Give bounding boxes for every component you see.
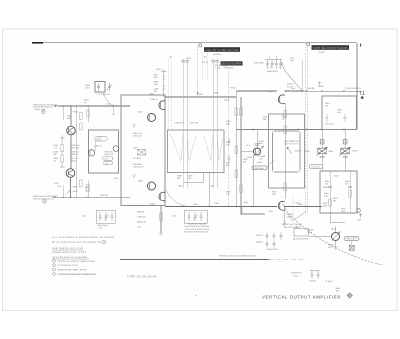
capacitor C513 [255, 144, 259, 145]
svg-text:CAPACITANCE VALUES ARE: CAPACITANCE VALUES ARE [184, 225, 210, 228]
svg-text:REFERENCE DIAGRAMS:: REFERENCE DIAGRAMS: [52, 256, 88, 259]
resistor R492 [160, 213, 163, 221]
svg-text:L1141: L1141 [186, 57, 191, 60]
resistor R456 [87, 181, 89, 198]
wire vert drop [208, 173, 210, 207]
resistor R490 [137, 221, 147, 224]
potentiometer R493 [138, 150, 146, 156]
relay box K522 [293, 226, 309, 241]
note text under network [184, 225, 210, 234]
svg-text:R536: R536 [323, 186, 328, 189]
wire curved from C401 to input line [103, 93, 113, 106]
svg-text:DISTRIBUTED: DISTRIBUTED [285, 140, 301, 143]
potentiometer R516 arrow [287, 147, 292, 154]
svg-text:C495 4.5-25: C495 4.5-25 [133, 165, 143, 168]
top rule dark segment [32, 42, 43, 44]
resistor R512 [282, 115, 287, 120]
wire diagonal pair [282, 203, 306, 221]
svg-text:L401: L401 [106, 103, 110, 106]
resistor R504 [235, 108, 238, 116]
svg-text:DELAY LINE DL401: DELAY LINE DL401 [206, 48, 239, 52]
resistor R515 [284, 126, 287, 134]
wire below box [330, 213, 345, 223]
svg-text:VERT SIG TO CRT PLATES: VERT SIG TO CRT PLATES [313, 46, 348, 50]
svg-text:C500: C500 [214, 202, 219, 205]
resistor R510 [240, 108, 243, 116]
svg-text:VERTICAL OUTPUT AMPLIFIER: VERTICAL OUTPUT AMPLIFIER [262, 295, 341, 300]
resistor R510 label [263, 116, 268, 121]
resistor R543 [345, 180, 350, 185]
note item 3 [53, 268, 87, 271]
capacitor C488 [154, 88, 159, 93]
capacitor network C441 (lower left termination) [96, 210, 115, 223]
potentiometer R483 [62, 186, 64, 198]
capacitor network C445 (lower mid termination) [184, 210, 207, 223]
output network box upper [322, 96, 357, 130]
node upper input [33, 103, 58, 113]
svg-text:SEE CAL PROC: SEE CAL PROC [284, 226, 299, 229]
svg-text:C445: C445 [172, 215, 177, 218]
svg-text:ATTENUATORS: ATTENUATORS [58, 264, 79, 267]
capacitor C541 [328, 187, 332, 188]
resistor R547 [341, 208, 346, 213]
label L1141 [186, 57, 191, 60]
node tick [169, 56, 172, 59]
svg-text:+12V: +12V [114, 177, 119, 180]
label box CURR BAL [252, 160, 275, 170]
svg-text:R497 330: R497 330 [190, 122, 198, 125]
svg-text:HF PEAK: HF PEAK [133, 157, 142, 160]
inductor L494 v-winding [171, 134, 197, 161]
wire R524 bottom [344, 130, 346, 172]
svg-text:C467 .001: C467 .001 [71, 146, 80, 149]
ground [132, 125, 136, 128]
wire lower output cont [285, 205, 322, 207]
label box GAIN [103, 157, 114, 161]
svg-text:C SELECTED: C SELECTED [266, 248, 279, 251]
note item 2 [53, 264, 78, 267]
bias network box [269, 114, 305, 188]
capacitor C507 [228, 138, 231, 146]
svg-text:+225V: +225V [71, 160, 77, 163]
svg-text:Q514: Q514 [269, 210, 274, 213]
capacitor C1133 [349, 245, 354, 250]
note voltages [52, 236, 114, 244]
svg-text:R484 2.7K: R484 2.7K [105, 153, 115, 156]
svg-text:-150V: -150V [243, 201, 249, 204]
resistor R489 [137, 216, 146, 219]
svg-text:L498: L498 [193, 203, 197, 206]
resistor R463 [54, 151, 59, 156]
svg-text:R491 1.5K: R491 1.5K [133, 132, 143, 135]
wire arrow delay line feed [197, 92, 199, 95]
ground [159, 233, 163, 236]
svg-text:Q486: Q486 [150, 203, 155, 206]
wire x302 [301, 60, 303, 91]
svg-text:L493: L493 [178, 185, 182, 188]
svg-text:SWEEPING AMPLIFIER: SWEEPING AMPLIFIER [58, 268, 87, 271]
capacitor C497 top tick [211, 61, 219, 63]
wire R1131 top [335, 226, 337, 233]
svg-text:Q495: Q495 [138, 180, 143, 183]
capacitor C543 [348, 187, 352, 188]
svg-text:TO CRT: TO CRT [309, 280, 317, 283]
resistor R461 [54, 144, 59, 149]
resistor R1128 [284, 206, 286, 221]
note item 1 [53, 260, 95, 263]
svg-text:C469 10: C469 10 [71, 153, 78, 156]
svg-text:DELAY LINE: DELAY LINE [35, 108, 46, 111]
svg-text:R496 330: R496 330 [175, 122, 183, 125]
transistor Q480 [88, 150, 94, 156]
svg-text:A: A [195, 294, 197, 298]
node junctions lower line [63, 197, 89, 198]
svg-text:C1131: C1131 [293, 275, 298, 278]
label shield [287, 83, 294, 89]
transistor Q474 [66, 169, 75, 178]
label C500 [214, 202, 219, 205]
wire upper interstage [165, 96, 236, 98]
resistor R462 [61, 145, 64, 152]
svg-text:TYPICAL AND SELECTED AT: TYPICAL AND SELECTED AT [184, 228, 210, 231]
svg-text:GEOMETRY: GEOMETRY [291, 272, 303, 275]
svg-text:C480 .01: C480 .01 [94, 145, 102, 148]
svg-text:ADJ: ADJ [328, 246, 332, 249]
svg-text:75 4676: 75 4676 [325, 280, 332, 283]
wire Q464 base [70, 106, 72, 126]
svg-text:LOW VOLTAGE REGULATED POWER SU: LOW VOLTAGE REGULATED POWER SUPPLY [58, 273, 98, 276]
resistor R488b [137, 211, 145, 214]
svg-text:TYPE 1A7 PLUG-IN: TYPE 1A7 PLUG-IN [127, 275, 157, 279]
resistor R503 [226, 120, 231, 125]
transistor Q513 [254, 148, 261, 155]
node +12V stub [359, 214, 362, 218]
wire diagonal [281, 62, 302, 91]
svg-text:453: 453 [67, 117, 70, 120]
svg-text:100K: 100K [323, 204, 328, 207]
svg-text:150K: 150K [341, 210, 346, 213]
svg-text:TO CRT: TO CRT [318, 51, 326, 54]
wire cable arc [291, 216, 383, 265]
svg-text:SEE PARTS LIST FOR: SEE PARTS LIST FOR [52, 247, 83, 250]
resistor R517 [284, 183, 287, 191]
output network box lower [320, 171, 357, 213]
wire dashed pair below DL401 [203, 53, 208, 80]
note parts list [52, 247, 87, 254]
svg-text:R524: R524 [329, 150, 334, 153]
transistor Q504 [278, 95, 284, 104]
wire R1131 bottom [335, 241, 337, 248]
transistor Q485 [113, 146, 119, 152]
resistor R482 [105, 151, 115, 157]
node junctions upper output [285, 90, 345, 91]
feedback network box [89, 130, 119, 173]
svg-text:R483: R483 [73, 186, 78, 189]
resistor R507 [226, 162, 231, 167]
node junctions upper line [63, 105, 114, 106]
wire dashed shield pair [169, 58, 172, 131]
svg-text:330: 330 [243, 160, 246, 163]
resistor R506 [235, 146, 238, 154]
svg-text:L496: L496 [198, 93, 202, 96]
svg-text:220: 220 [54, 153, 57, 156]
label box BAL [104, 162, 113, 165]
svg-text:R493: R493 [133, 147, 138, 150]
svg-text:R506 TERM: R506 TERM [267, 70, 278, 73]
svg-text:1 MEG: 1 MEG [257, 161, 263, 164]
resistor R465 [54, 157, 59, 162]
wire Q480 arc [95, 140, 96, 151]
rail B [241, 97, 265, 214]
svg-text:BAL: BAL [105, 162, 108, 165]
ground [334, 247, 338, 250]
svg-text:R480: R480 [96, 138, 100, 141]
resistor R491 [133, 132, 143, 138]
transistor Q485b [159, 192, 165, 201]
resistor R541 [325, 180, 330, 185]
geometry network C1131 [310, 271, 321, 279]
svg-text:.001: .001 [154, 90, 158, 93]
node +225V feed [163, 72, 165, 98]
node junctions mid bus [252, 129, 344, 130]
resistor R536 label [323, 186, 328, 189]
node CRT upper plate [360, 91, 365, 95]
svg-text:R402 453: R402 453 [100, 194, 108, 197]
wire inner rail [330, 171, 350, 213]
tick node right of rule [360, 44, 362, 47]
wire R46x stem [61, 135, 63, 168]
resistor R407 [80, 180, 83, 187]
thermal compensation box [273, 131, 301, 172]
svg-text:C1 4: C1 4 [246, 144, 250, 147]
resistor R405 [80, 123, 83, 130]
svg-text:L520: L520 [291, 87, 295, 90]
resistor R464 [61, 155, 64, 162]
wire Q504 emitter rail [284, 104, 286, 200]
svg-text:VERT CENT: VERT CENT [346, 238, 357, 241]
svg-text:BEAM ROTATOR: BEAM ROTATOR [293, 238, 308, 241]
wire plate line pair A [183, 59, 187, 189]
svg-text:L497: L497 [210, 185, 214, 188]
resistor R1141 label [223, 62, 228, 67]
svg-text:330: 330 [177, 177, 180, 180]
resistor R451 [62, 106, 64, 120]
resistor R487 [154, 74, 159, 79]
svg-text:+12V: +12V [57, 185, 62, 188]
wire Q464 emitter to Q474 [70, 135, 72, 169]
label R535 [333, 197, 338, 202]
svg-text:SEMICONDUCTOR TYPES: SEMICONDUCTOR TYPES [52, 251, 87, 254]
svg-text:220: 220 [226, 164, 229, 167]
resistor R537 [323, 202, 328, 207]
wire Q513 emitter [252, 155, 254, 207]
rail -12V [160, 206, 162, 234]
label box SHIFT [310, 165, 323, 169]
wire dashed rail C1145 [228, 65, 230, 206]
resistor R467 [71, 144, 81, 149]
wire stub [184, 173, 204, 183]
svg-text:C489 .001: C489 .001 [137, 216, 146, 219]
ground [132, 175, 136, 178]
wire right border [356, 43, 358, 130]
label box DC BAL [95, 136, 108, 141]
svg-text:C1143: C1143 [202, 61, 207, 64]
delay line label box DL402 [221, 61, 243, 69]
capacitor C531 [326, 114, 329, 122]
wire mid horizontal bus [236, 129, 357, 131]
svg-text:VERTICAL SIGNAL OUT AMPLIFIER: VERTICAL SIGNAL OUT AMPLIFIER DIAG [219, 255, 256, 258]
svg-text:R484 1K: R484 1K [151, 98, 159, 101]
svg-text:+350V: +350V [318, 85, 324, 88]
svg-text:-150V: -150V [73, 190, 79, 193]
resistor R519 label [272, 191, 277, 196]
capacitor C493 top tick [181, 61, 189, 63]
wire lower signal line [57, 196, 131, 198]
svg-text:SHIELD: SHIELD [287, 83, 294, 86]
capacitor network C501 (top center termination) [265, 56, 283, 69]
resistor R498 [177, 175, 182, 181]
label C504 [290, 57, 295, 63]
svg-text:TO UPPER PLATE: TO UPPER PLATE [345, 87, 362, 90]
wire dashed from DL401 [197, 47, 199, 96]
svg-text:330K: 330K [223, 64, 228, 67]
note min dc shift [282, 223, 302, 229]
resistor R533 [337, 109, 342, 114]
svg-text:C531 8-50: C531 8-50 [325, 123, 334, 126]
transistor Q484 [159, 101, 165, 110]
svg-text:FACTORY FOR EACH UNIT: FACTORY FOR EACH UNIT [184, 231, 209, 234]
capacitor network C401 (top left termination) [95, 82, 113, 93]
resistor R531 [325, 102, 330, 107]
note reference diagrams [52, 256, 89, 259]
resistor R496 [175, 122, 183, 125]
delay line section box [168, 130, 225, 173]
transistor Q494 [148, 114, 156, 122]
resistor R488 [154, 81, 159, 86]
amplifier stage box [121, 95, 165, 206]
node input arrow lower [54, 196, 57, 198]
svg-text:DEFLECTION: DEFLECTION [285, 142, 299, 145]
resistor R502 label [243, 158, 248, 163]
capacitor C508 [228, 155, 231, 163]
capacitor C533 [344, 114, 347, 122]
svg-text:* SELECTED VALUES: * SELECTED VALUES [187, 222, 207, 225]
wire dashed pair from DL403 [305, 47, 307, 214]
svg-text:C521 27: C521 27 [256, 234, 263, 237]
svg-text:R520 66: R520 66 [307, 87, 314, 90]
svg-text:C537: C537 [334, 175, 339, 178]
svg-text:+12V: +12V [295, 202, 300, 205]
resistor R455 [87, 106, 89, 122]
wire R522 top [321, 130, 323, 172]
node junctions lower line [182, 206, 307, 207]
capacitor cluster C521 [266, 233, 283, 248]
label R500 [214, 92, 219, 95]
node CRT lower plate [357, 209, 361, 213]
resistor R495 [133, 163, 143, 169]
wire dashed stub [292, 196, 294, 218]
wire Q474 emitter to lower line [70, 177, 72, 197]
wire curved link [166, 190, 187, 207]
svg-text:4.5-25: 4.5-25 [215, 66, 220, 69]
wire vert cent stub [351, 240, 353, 245]
svg-text:+225V: +225V [156, 68, 162, 71]
potentiometer arrow through Q513 [254, 146, 264, 157]
svg-text:+500V: +500V [352, 150, 358, 153]
svg-text:Q484: Q484 [149, 93, 154, 96]
node dot diag [301, 90, 302, 91]
top rule [32, 42, 357, 44]
delay line label box DL403 [307, 43, 349, 54]
resistor R505 [226, 141, 231, 146]
label -12V [137, 226, 142, 229]
svg-text:C491 .001: C491 .001 [133, 135, 142, 138]
rail A [235, 91, 237, 206]
resistor R469 [71, 151, 79, 156]
resistor R509 [226, 191, 231, 196]
transistor Q514 [278, 201, 284, 210]
potentiometer R522 [316, 147, 327, 156]
resistor R497 [190, 122, 198, 125]
svg-text:R404: R404 [85, 86, 90, 89]
wire upper output line cont [285, 90, 361, 92]
svg-text:2.2M: 2.2M [308, 231, 313, 234]
svg-text:R488 1K: R488 1K [137, 211, 145, 214]
wire to geom pot [309, 236, 331, 238]
potentiometer R1131 GEOM [332, 233, 340, 241]
wire vert [241, 206, 243, 214]
resistor R511 [240, 185, 243, 193]
svg-text:R500: R500 [214, 92, 219, 95]
wire stub below node [112, 106, 115, 115]
title diamond mark [347, 293, 352, 298]
resistor R545 [324, 192, 329, 197]
svg-text:L442: L442 [82, 215, 86, 218]
resistor R514 [284, 110, 287, 118]
svg-text:VERTICAL INPUT AMPLIFIER: VERTICAL INPUT AMPLIFIER [58, 260, 95, 263]
node tick pillarB [204, 56, 207, 59]
svg-text:+350V: +350V [230, 87, 236, 90]
svg-text:ADJ: ADJ [99, 227, 103, 230]
svg-text:IN DRUM: IN DRUM [213, 53, 222, 56]
label C1143 [202, 61, 207, 64]
svg-text:C1145: C1145 [224, 99, 229, 102]
svg-text:R490 2.2K: R490 2.2K [137, 221, 147, 224]
text block thermal note [285, 140, 301, 146]
node input arrow [55, 105, 58, 107]
svg-text:CURR BAL: CURR BAL [254, 167, 264, 170]
svg-text:C523 27: C523 27 [256, 241, 263, 244]
resistor R471 [71, 157, 79, 162]
potentiometer R524 [339, 147, 350, 156]
svg-text:.001: .001 [290, 59, 294, 62]
wire bus to other diagram [120, 259, 269, 261]
resistor R508 [235, 170, 238, 178]
svg-text:ALL VOLTAGES & WAVEFORMS OBTAI: ALL VOLTAGES & WAVEFORMS OBTAINED [52, 236, 114, 239]
wire Q513 collector stub [256, 130, 258, 149]
svg-text:WITH CONTROLS SET AS GIVEN ON: WITH CONTROLS SET AS GIVEN ON [52, 241, 101, 244]
svg-text:765: 765 [336, 290, 339, 293]
svg-text:R516 5K: R516 5K [295, 150, 303, 153]
svg-text:Q494: Q494 [138, 111, 143, 114]
transistor Q495 [148, 182, 156, 190]
wire plate line pair B [213, 59, 217, 189]
node +350V tick [318, 82, 321, 87]
note item 4 [53, 273, 97, 276]
resistor R539 [349, 190, 352, 197]
resistor R499 [188, 175, 193, 181]
svg-text:Q504: Q504 [268, 90, 273, 93]
